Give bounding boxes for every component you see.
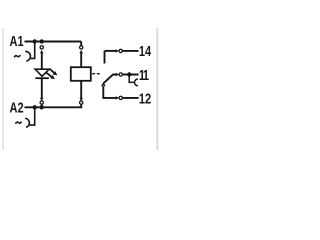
svg-text:A1: A1 xyxy=(10,32,24,49)
svg-text:11: 11 xyxy=(139,66,149,83)
svg-text:12: 12 xyxy=(139,90,151,107)
svg-text:14: 14 xyxy=(139,43,152,60)
svg-text:A2: A2 xyxy=(10,99,24,116)
